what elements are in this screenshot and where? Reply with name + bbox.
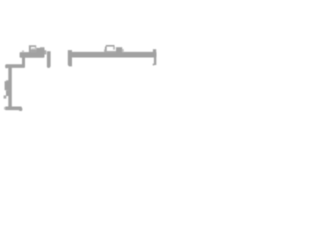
ground foot wire [5,107,22,111]
component C1 lead [4,95,7,98]
component R1 raised block [116,47,122,52]
component box U2 left side pin 1 [105,47,107,53]
wire end descender tip [153,64,155,66]
wire net A rise under box [31,49,37,52]
component C1 plate upper [5,81,9,90]
connector J1 bar [68,50,72,66]
node stub [22,50,24,52]
wire net B horizontal elbow [5,64,25,68]
component box U2 left side flare [104,49,105,52]
component box U1 left side pin 1 [29,47,31,53]
wire corner vertical [22,56,25,67]
component box U1 top edge [29,45,36,47]
terminal end bump [153,49,156,52]
component C1 plate lower [6,90,9,96]
component box U1 right side pin 2 [35,47,37,50]
wire vertical mid [47,51,51,68]
junction node cap [5,65,8,69]
component D1 body [36,48,44,53]
wire end descender [154,57,156,65]
component box U2 right side pin 2 [113,47,115,50]
component D1 body top right [40,47,44,48]
ground foot tip [19,108,22,111]
ground foot left fade [4,107,6,110]
wire net A horizontal [20,52,45,58]
component C1 ledge [6,80,8,81]
component D1 shade [32,48,37,49]
wire net C bus horizontal [72,52,157,58]
component R1 step [122,49,124,52]
component D1 step [44,50,46,54]
wire left vertical [8,66,12,108]
wire net C rise under box [105,51,117,53]
component box U2 top edge [106,45,115,47]
